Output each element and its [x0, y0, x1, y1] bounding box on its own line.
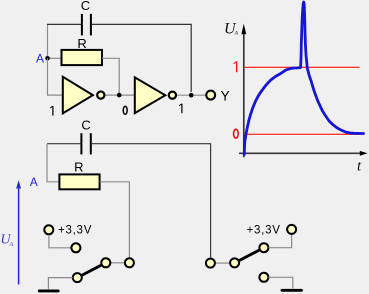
wire node A up to capacitor — [47, 24, 49, 58]
node A junction dot — [45, 56, 50, 61]
svg-text:C: C — [81, 0, 90, 13]
svg-text:A: A — [9, 242, 14, 248]
wire resistor R2 to switch S1 pole — [100, 182, 130, 258]
level line 1 (red) — [245, 66, 360, 69]
ground (right) — [282, 289, 302, 292]
svg-text:A: A — [30, 175, 38, 189]
supply terminal +3,3V (right) — [287, 225, 296, 234]
wire resistor R1 to node between gates — [102, 58, 119, 95]
wire switch S1 ground contact to ground — [48, 278, 72, 289]
label Y — [221, 89, 230, 104]
capacitor C2 — [81, 133, 90, 154]
label U_A (blue voltage) — [0, 233, 13, 248]
svg-text:+3,3V: +3,3V — [247, 225, 281, 237]
label A (blue, node A2) — [30, 175, 38, 189]
switch S2 throw contact (+3,3V side) — [259, 243, 268, 252]
ground (left) — [39, 289, 58, 292]
switch S1 ground contact — [73, 273, 82, 282]
label R (resistor R1) — [77, 36, 86, 51]
label t (graph axis) — [357, 159, 362, 175]
wire U2 output to terminal Y — [177, 94, 206, 96]
label R (resistor R2) — [74, 159, 83, 174]
label 1 (U1 input state) — [50, 106, 53, 116]
label 1 (U2 output state) — [179, 104, 182, 114]
svg-text:A: A — [36, 52, 44, 66]
switch S1 pole contact — [125, 258, 134, 267]
supply terminal +3,3V (left) — [44, 225, 53, 234]
wire +3,3V terminal to switch S1 throw contact — [49, 235, 72, 248]
level line 0 (red) — [245, 133, 360, 136]
voltage arrow U_A (blue) — [16, 180, 21, 284]
output voltage curve U_A(t) — [244, 2, 363, 155]
wire capacitor C1 left lead — [47, 23, 81, 25]
junction node U1 output — [117, 93, 122, 98]
label A (blue, node A) — [36, 52, 44, 66]
wire U1 output to U2 input — [106, 94, 135, 96]
label 0 (node state) — [123, 106, 127, 114]
label +3,3V (right) — [247, 225, 281, 237]
wire switch S1 pole stub — [110, 262, 125, 264]
junction node U2 output — [189, 93, 194, 98]
svg-text:R: R — [74, 159, 83, 174]
switch S1 throw contact (+3,3V side) — [71, 243, 80, 252]
label 0 (red level) — [234, 129, 239, 138]
wire capacitor C2 left lead / node A2 — [47, 143, 81, 145]
label 1 (red level) — [234, 61, 238, 72]
resistor R2 — [59, 174, 99, 189]
wire node A2 down to resistor R2 — [47, 144, 59, 182]
switch S1 lever — [77, 258, 110, 277]
switch S2 pole contact — [206, 259, 215, 268]
label C (capacitor C1) — [81, 0, 90, 13]
svg-text:A: A — [234, 30, 239, 36]
wire switch S2 throw contact to +3,3V terminal — [268, 234, 291, 247]
resistor R1 — [62, 50, 103, 65]
switch S2 ground contact — [259, 273, 268, 282]
label +3,3V (left) — [58, 225, 92, 237]
inverter U2 — [135, 77, 176, 113]
wire switch S2 ground contact to ground — [268, 277, 293, 288]
graph Y axis — [241, 24, 246, 158]
capacitor C1 — [82, 14, 91, 36]
inverter U1 — [63, 77, 105, 114]
svg-text:Y: Y — [221, 89, 230, 104]
svg-text:C: C — [81, 117, 90, 132]
label C (capacitor C2) — [81, 117, 90, 132]
switch S2 lever — [230, 248, 264, 268]
wire capacitor C1 to output node feedback — [92, 24, 192, 92]
label U_A (graph axis) — [224, 21, 239, 38]
wire capacitor C2 to switch S2 pole — [91, 144, 210, 259]
svg-text:R: R — [77, 36, 86, 51]
wire node A to resistor R1 — [48, 57, 62, 59]
wire switch S2 pole stub — [215, 262, 230, 264]
terminal Y — [206, 91, 215, 100]
svg-text:t: t — [357, 159, 362, 175]
wire node A down to inverter U1 input — [48, 58, 63, 95]
svg-text:+3,3V: +3,3V — [58, 225, 92, 237]
graph t axis — [239, 151, 368, 156]
